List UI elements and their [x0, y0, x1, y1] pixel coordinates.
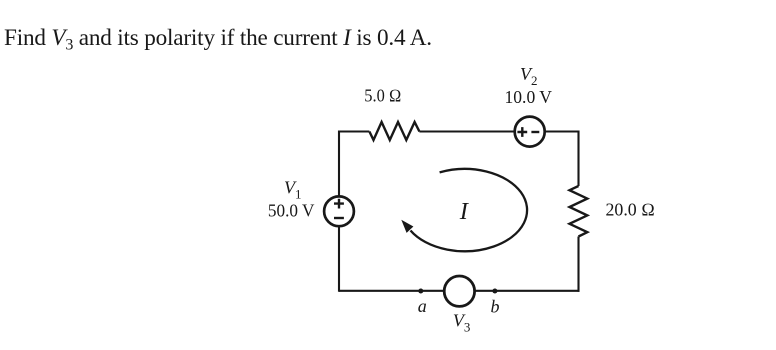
node b dot [492, 289, 497, 294]
wire top-middle segment [419, 130, 515, 132]
V2 plus sign [517, 127, 527, 137]
svg-text:5.0 Ω: 5.0 Ω [364, 86, 401, 106]
element V3 circle (unknown source) [444, 276, 474, 306]
V2 minus sign [531, 131, 539, 133]
source V1 circle [324, 196, 354, 226]
wire right upper segment [577, 131, 579, 187]
svg-text:V1: V1 [284, 178, 302, 202]
svg-text:50.0 V: 50.0 V [268, 200, 315, 220]
svg-text:b: b [491, 297, 500, 317]
V1 minus sign [334, 217, 344, 219]
wire left upper segment [338, 131, 340, 197]
source V2 circle [515, 117, 545, 147]
resistor R1 5.0 ohm (top zigzag) [369, 122, 419, 140]
wire left lower segment [338, 226, 340, 292]
wire top-left segment [339, 130, 369, 132]
title text [4, 25, 432, 54]
svg-text:Find V3 and its polarity if th: Find V3 and its polarity if the current … [4, 25, 432, 54]
resistor R2 20.0 ohm (right zigzag) [570, 186, 588, 237]
svg-text:V3: V3 [453, 311, 471, 335]
wire right lower segment [577, 237, 579, 292]
wire top-right segment [544, 130, 578, 132]
svg-text:I: I [459, 198, 470, 225]
node a dot [418, 289, 423, 294]
wire bottom-right segment [475, 290, 580, 292]
current loop arc I [411, 169, 528, 251]
wire bottom-left segment [339, 290, 444, 292]
svg-text:V2: V2 [520, 64, 538, 88]
svg-text:20.0 Ω: 20.0 Ω [606, 200, 655, 220]
svg-text:a: a [418, 296, 427, 316]
current loop arrowhead [401, 220, 413, 233]
V1 plus sign [334, 199, 344, 209]
svg-text:10.0 V: 10.0 V [505, 87, 553, 107]
